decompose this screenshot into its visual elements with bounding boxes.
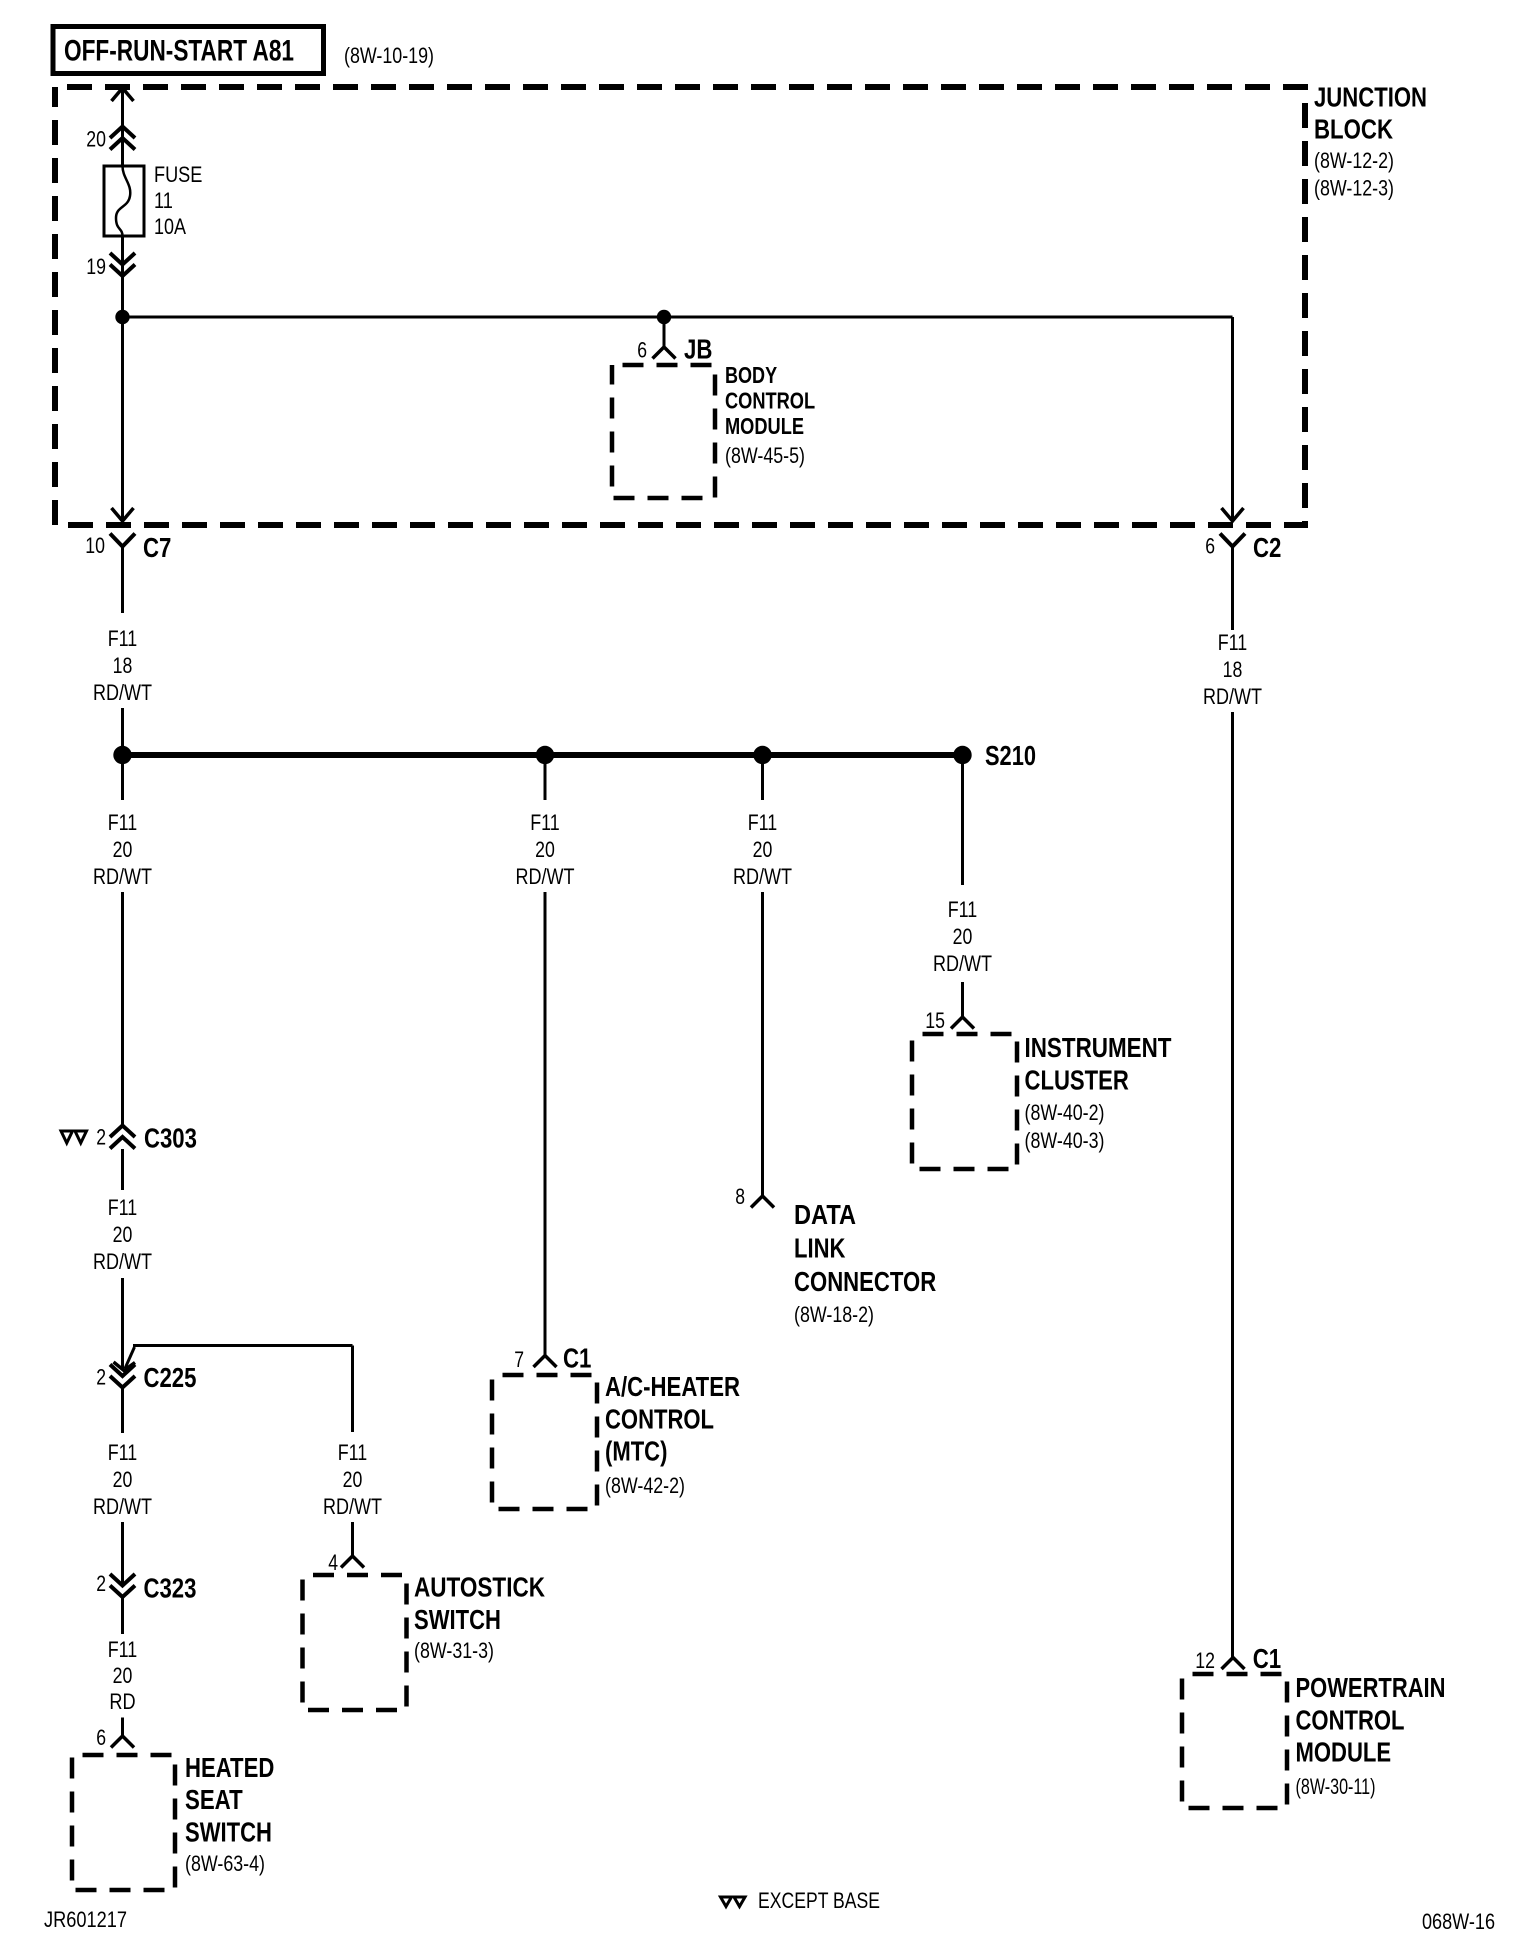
svg-text:C1: C1 <box>563 1343 591 1374</box>
svg-text:OFF-RUN-START A81: OFF-RUN-START A81 <box>64 35 294 68</box>
svg-text:20: 20 <box>113 1467 133 1492</box>
svg-text:20: 20 <box>753 837 773 862</box>
svg-text:20: 20 <box>953 924 973 949</box>
svg-text:F11: F11 <box>108 810 138 835</box>
svg-text:(8W-10-19): (8W-10-19) <box>344 43 434 68</box>
svg-text:068W-16: 068W-16 <box>1422 1909 1495 1934</box>
svg-text:F11: F11 <box>948 897 978 922</box>
svg-text:(8W-40-3): (8W-40-3) <box>1025 1128 1105 1153</box>
svg-text:11: 11 <box>154 188 173 213</box>
svg-text:AUTOSTICK: AUTOSTICK <box>414 1572 545 1603</box>
svg-text:C7: C7 <box>143 532 171 563</box>
svg-text:RD/WT: RD/WT <box>933 951 992 976</box>
svg-text:CONTROL: CONTROL <box>725 388 815 414</box>
svg-text:EXCEPT BASE: EXCEPT BASE <box>758 1888 880 1913</box>
svg-text:RD: RD <box>109 1689 135 1714</box>
svg-text:(8W-30-11): (8W-30-11) <box>1296 1774 1376 1799</box>
svg-text:RD/WT: RD/WT <box>516 864 575 889</box>
svg-text:4: 4 <box>328 1550 338 1575</box>
svg-text:F11: F11 <box>108 1637 138 1662</box>
svg-text:(8W-63-4): (8W-63-4) <box>185 1851 265 1876</box>
svg-text:F11: F11 <box>530 810 560 835</box>
svg-text:S210: S210 <box>985 740 1036 771</box>
svg-text:C2: C2 <box>1253 532 1281 563</box>
svg-text:RD/WT: RD/WT <box>733 864 792 889</box>
svg-text:DATA: DATA <box>794 1199 856 1230</box>
svg-text:6: 6 <box>637 338 647 363</box>
svg-text:12: 12 <box>1195 1648 1215 1673</box>
svg-text:MODULE: MODULE <box>1296 1737 1392 1768</box>
svg-text:HEATED: HEATED <box>185 1752 274 1783</box>
svg-text:20: 20 <box>86 127 106 152</box>
svg-text:JUNCTION: JUNCTION <box>1314 82 1427 113</box>
svg-text:20: 20 <box>113 1222 133 1247</box>
svg-text:A/C-HEATER: A/C-HEATER <box>605 1371 740 1402</box>
svg-text:CLUSTER: CLUSTER <box>1025 1065 1129 1096</box>
svg-text:10: 10 <box>85 533 105 558</box>
svg-text:20: 20 <box>343 1467 363 1492</box>
svg-text:15: 15 <box>925 1008 945 1033</box>
svg-text:POWERTRAIN: POWERTRAIN <box>1296 1672 1446 1703</box>
svg-text:6: 6 <box>96 1725 106 1750</box>
svg-text:FUSE: FUSE <box>154 162 202 187</box>
svg-text:(8W-18-2): (8W-18-2) <box>794 1302 874 1327</box>
svg-text:SEAT: SEAT <box>185 1784 243 1815</box>
svg-text:SWITCH: SWITCH <box>414 1604 501 1635</box>
svg-text:20: 20 <box>535 837 555 862</box>
svg-text:CONTROL: CONTROL <box>605 1404 714 1435</box>
svg-text:19: 19 <box>86 254 106 279</box>
svg-text:C303: C303 <box>144 1123 197 1154</box>
svg-text:2: 2 <box>96 1571 106 1596</box>
svg-text:C225: C225 <box>144 1362 197 1393</box>
svg-text:INSTRUMENT: INSTRUMENT <box>1025 1032 1172 1063</box>
svg-text:10A: 10A <box>154 214 186 239</box>
svg-text:18: 18 <box>1223 657 1243 682</box>
svg-text:RD/WT: RD/WT <box>93 1249 152 1274</box>
svg-text:CONTROL: CONTROL <box>1296 1705 1405 1736</box>
svg-text:(8W-12-2): (8W-12-2) <box>1314 148 1394 173</box>
svg-text:20: 20 <box>113 1663 133 1688</box>
svg-text:F11: F11 <box>1218 630 1248 655</box>
svg-text:2: 2 <box>96 1125 106 1150</box>
svg-text:F11: F11 <box>108 1195 138 1220</box>
svg-text:8: 8 <box>735 1184 745 1209</box>
svg-text:RD/WT: RD/WT <box>1203 684 1262 709</box>
svg-text:(8W-45-5): (8W-45-5) <box>725 443 805 468</box>
svg-text:BODY: BODY <box>725 362 777 388</box>
svg-text:RD/WT: RD/WT <box>323 1494 382 1519</box>
svg-text:SWITCH: SWITCH <box>185 1817 272 1848</box>
svg-text:F11: F11 <box>108 626 138 651</box>
svg-text:C1: C1 <box>1253 1643 1281 1674</box>
svg-text:CONNECTOR: CONNECTOR <box>794 1266 936 1297</box>
svg-text:F11: F11 <box>108 1440 138 1465</box>
svg-text:6: 6 <box>1205 534 1215 559</box>
svg-text:(8W-31-3): (8W-31-3) <box>414 1638 494 1663</box>
svg-text:RD/WT: RD/WT <box>93 1494 152 1519</box>
svg-text:RD/WT: RD/WT <box>93 864 152 889</box>
svg-text:(8W-40-2): (8W-40-2) <box>1025 1100 1105 1125</box>
svg-text:BLOCK: BLOCK <box>1314 114 1393 145</box>
svg-text:JR601217: JR601217 <box>44 1907 127 1932</box>
svg-text:JB: JB <box>684 334 712 365</box>
svg-text:7: 7 <box>514 1347 524 1372</box>
svg-text:RD/WT: RD/WT <box>93 680 152 705</box>
svg-text:F11: F11 <box>338 1440 368 1465</box>
svg-text:LINK: LINK <box>794 1233 845 1264</box>
svg-text:(8W-12-3): (8W-12-3) <box>1314 176 1394 201</box>
svg-text:MODULE: MODULE <box>725 413 804 439</box>
svg-text:(MTC): (MTC) <box>605 1436 667 1467</box>
svg-text:20: 20 <box>113 837 133 862</box>
svg-text:C323: C323 <box>144 1573 197 1604</box>
svg-text:F11: F11 <box>748 810 778 835</box>
svg-text:(8W-42-2): (8W-42-2) <box>605 1473 685 1498</box>
svg-text:2: 2 <box>96 1365 106 1390</box>
svg-text:18: 18 <box>113 653 133 678</box>
